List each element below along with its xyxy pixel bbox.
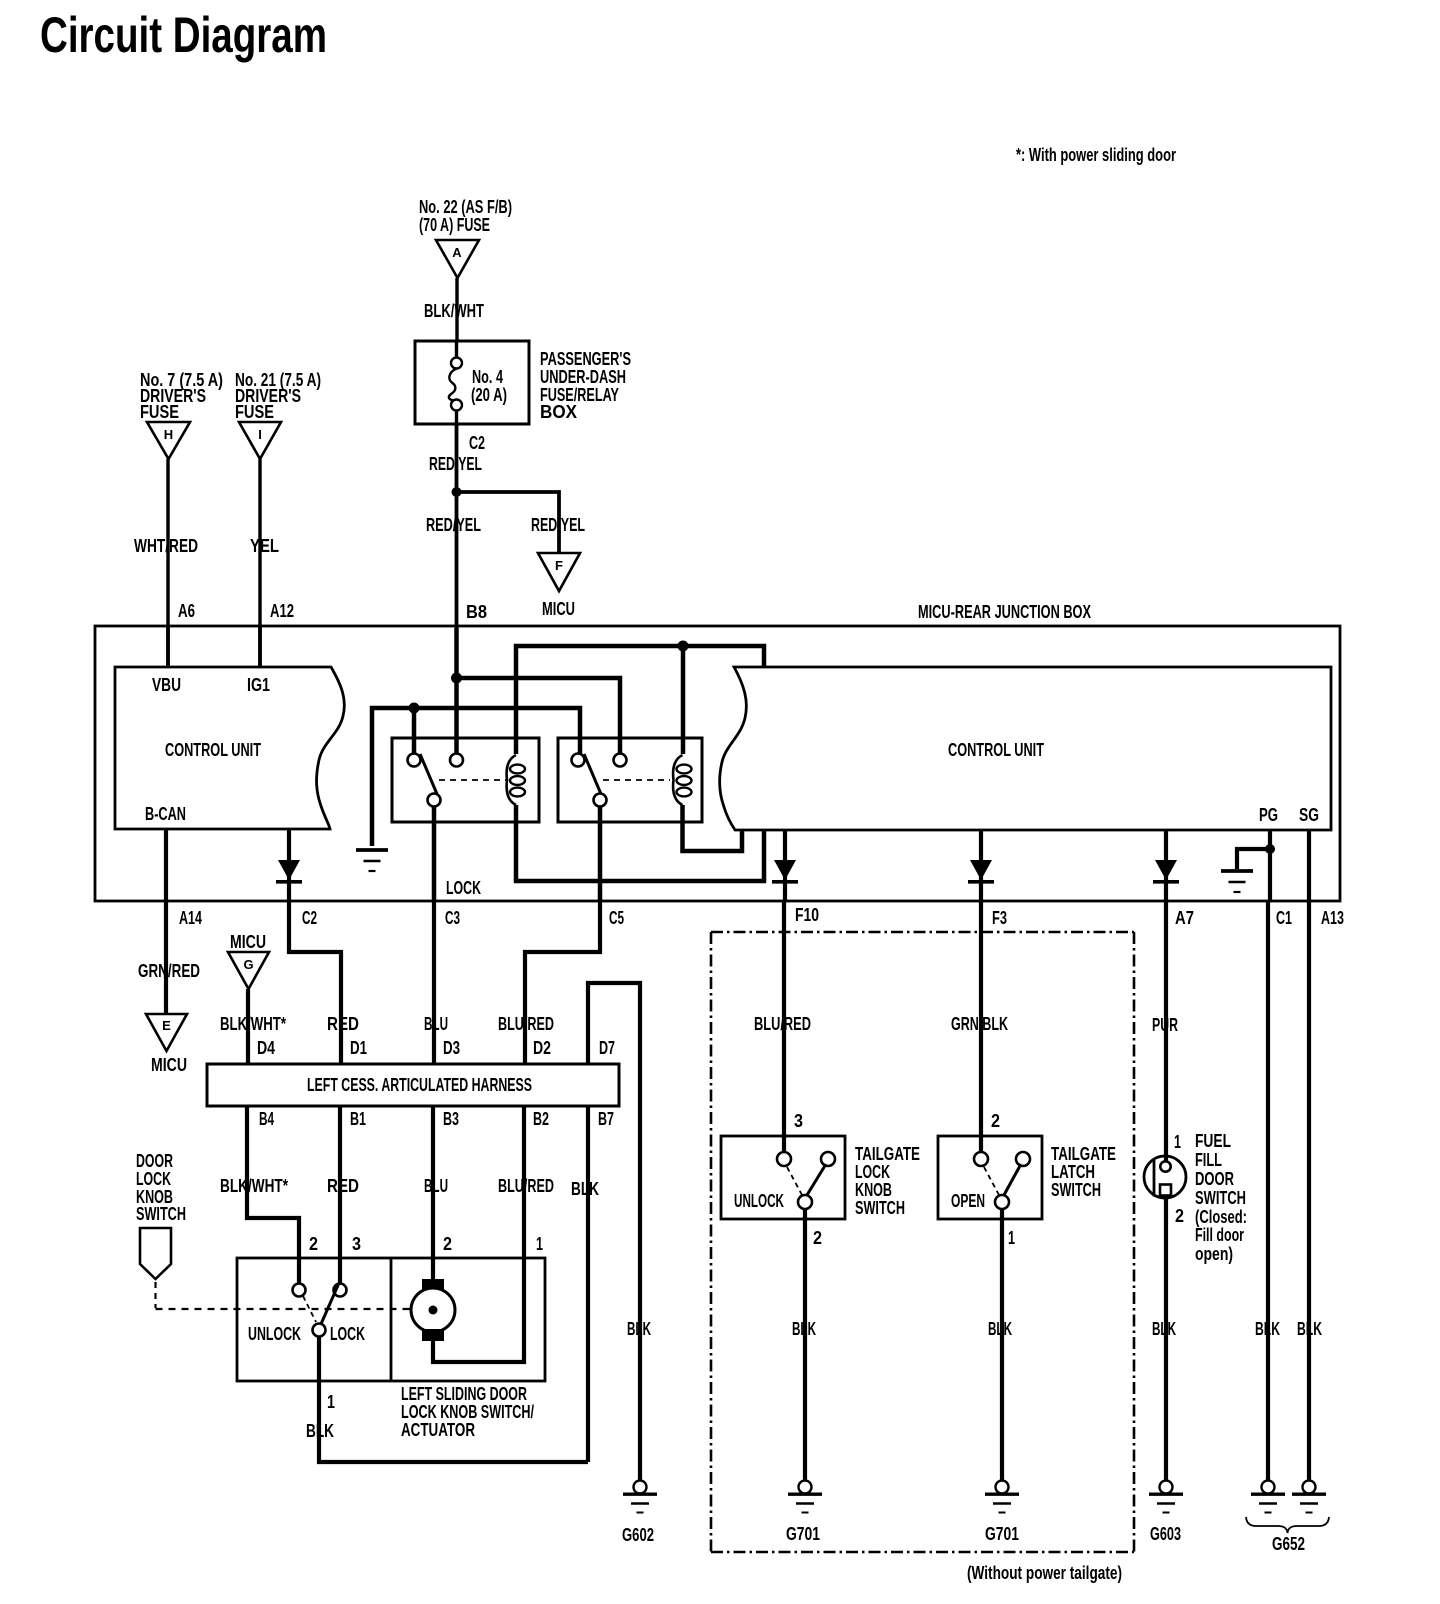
svg-text:RED: RED bbox=[327, 1176, 359, 1196]
svg-text:B2: B2 bbox=[533, 1109, 549, 1129]
svg-text:G: G bbox=[243, 957, 253, 972]
svg-text:D4: D4 bbox=[257, 1038, 275, 1058]
svg-text:MICU: MICU bbox=[151, 1055, 187, 1075]
svg-text:2: 2 bbox=[991, 1111, 1000, 1131]
power arrow A bbox=[436, 240, 479, 278]
wire relay2 output to C5 bbox=[598, 806, 603, 901]
svg-text:LOCK: LOCK bbox=[330, 1324, 365, 1344]
node coil feed bbox=[678, 641, 689, 652]
node PG ground tap bbox=[1265, 844, 1275, 854]
svg-text:TAILGATE: TAILGATE bbox=[1051, 1144, 1116, 1164]
svg-text:3: 3 bbox=[352, 1234, 361, 1254]
svg-text:1: 1 bbox=[536, 1234, 543, 1254]
wire B8 branch to relay 2 bbox=[457, 678, 621, 754]
wire A14 GRN/RED to E bbox=[164, 901, 168, 1014]
svg-text:ACTUATOR: ACTUATOR bbox=[401, 1420, 475, 1440]
wire RED/YEL fuse box down bbox=[455, 424, 459, 628]
wire C5 to D2 BLU/RED bbox=[525, 901, 600, 1064]
svg-text:BLK: BLK bbox=[1255, 1319, 1280, 1339]
junction node bbox=[452, 487, 462, 497]
wire YEL bbox=[258, 459, 261, 667]
wire relay1 output LOCK to C3 bbox=[432, 806, 437, 901]
tailgate latch switch box bbox=[938, 1136, 1042, 1219]
svg-text:MICU-REAR JUNCTION BOX: MICU-REAR JUNCTION BOX bbox=[918, 602, 1091, 622]
label TAILGATE LOCK KNOB SWITCH bbox=[855, 1144, 920, 1218]
svg-text:2: 2 bbox=[309, 1234, 318, 1254]
wire relay2 coil return to control unit bbox=[683, 805, 743, 851]
svg-text:D1: D1 bbox=[350, 1038, 367, 1058]
svg-text:SG: SG bbox=[1299, 805, 1319, 825]
svg-text:RED/YEL: RED/YEL bbox=[426, 515, 481, 535]
svg-text:PASSENGER'S: PASSENGER'S bbox=[540, 349, 631, 369]
wire WHT/RED bbox=[166, 459, 169, 667]
svg-text:GRN/BLK: GRN/BLK bbox=[951, 1014, 1008, 1034]
wire F3 GRN/BLK to tailgate latch switch bbox=[979, 901, 983, 1152]
svg-text:G603: G603 bbox=[1150, 1524, 1181, 1544]
relay 2 box bbox=[558, 738, 702, 822]
tailgate lock knob switch box bbox=[721, 1136, 845, 1219]
wire control unit to F3 bbox=[979, 830, 983, 901]
wire A13 BLK to G652 bbox=[1307, 901, 1311, 1481]
svg-text:*: With power sliding door: *: With power sliding door bbox=[1016, 145, 1176, 165]
svg-text:B7: B7 bbox=[598, 1109, 614, 1129]
wire switch pin1 BLK to B7 bbox=[319, 1337, 588, 1463]
power arrow H bbox=[147, 422, 190, 459]
svg-text:LATCH: LATCH bbox=[1051, 1162, 1095, 1182]
svg-text:G701: G701 bbox=[786, 1524, 820, 1544]
diode D3 (F3) bbox=[968, 860, 994, 882]
relay 2 coil bbox=[673, 755, 691, 805]
svg-text:No. 22 (AS F/B): No. 22 (AS F/B) bbox=[419, 197, 512, 217]
svg-text:RED/YEL: RED/YEL bbox=[531, 515, 585, 535]
door lock knob switch symbol bbox=[140, 1228, 171, 1279]
svg-text:D3: D3 bbox=[443, 1038, 460, 1058]
power arrow I bbox=[239, 422, 281, 459]
svg-text:LOCK KNOB SWITCH/: LOCK KNOB SWITCH/ bbox=[401, 1402, 534, 1422]
ground G652 (right) bbox=[1292, 1481, 1326, 1513]
svg-text:LOCK: LOCK bbox=[855, 1162, 890, 1182]
svg-text:C2: C2 bbox=[302, 908, 317, 928]
svg-text:WHT/RED: WHT/RED bbox=[134, 536, 198, 556]
svg-text:MICU: MICU bbox=[542, 599, 575, 619]
wire control unit to F10 bbox=[783, 830, 787, 901]
svg-text:SWITCH: SWITCH bbox=[855, 1198, 905, 1218]
wire C1 BLK to G652 bbox=[1266, 901, 1270, 1481]
wire A7 PUR to fuel fill door switch bbox=[1164, 901, 1168, 1157]
wire tailgate latch BLK to G701 bbox=[1000, 1209, 1004, 1481]
node B8 branch bbox=[451, 673, 462, 684]
svg-text:C5: C5 bbox=[609, 908, 624, 928]
relay 1 actuation dashed link bbox=[439, 779, 506, 781]
svg-text:BLK: BLK bbox=[1152, 1319, 1176, 1339]
diode D1 (C2) bbox=[276, 860, 302, 882]
fuse No.21 driver's label bbox=[235, 370, 321, 422]
svg-text:UNDER-DASH: UNDER-DASH bbox=[540, 367, 626, 387]
wire fuel fill switch BLK to G603 bbox=[1164, 1198, 1168, 1481]
svg-text:open): open) bbox=[1195, 1244, 1233, 1264]
svg-text:GRN/RED: GRN/RED bbox=[138, 961, 200, 981]
wire control unit to A7 bbox=[1164, 830, 1168, 901]
power arrow E bbox=[146, 1014, 187, 1051]
svg-text:G701: G701 bbox=[985, 1524, 1019, 1544]
svg-text:G652: G652 bbox=[1272, 1534, 1305, 1554]
svg-text:C2: C2 bbox=[469, 433, 485, 453]
svg-text:BLU: BLU bbox=[424, 1014, 448, 1034]
svg-text:UNLOCK: UNLOCK bbox=[734, 1191, 784, 1211]
tailgate lock knob switch blade bbox=[807, 1164, 826, 1195]
relay 1 armature blade bbox=[420, 754, 437, 794]
svg-text:A6: A6 bbox=[178, 601, 195, 621]
fuel fill door switch SW bbox=[1144, 1156, 1186, 1199]
svg-text:BLU/RED: BLU/RED bbox=[498, 1176, 554, 1196]
label No.4 (20A) bbox=[471, 367, 507, 405]
fuse No.4 symbol bbox=[449, 341, 462, 424]
knob switch contacts bbox=[293, 1284, 347, 1337]
left cess. articulated harness box bbox=[207, 1064, 619, 1106]
wire G to D4 BLK/WHT* bbox=[246, 989, 250, 1064]
relay 2 armature blade bbox=[584, 754, 601, 794]
svg-text:BLK/WHT*: BLK/WHT* bbox=[220, 1176, 288, 1196]
wire B1 RED to switch pin 3 bbox=[338, 1106, 342, 1284]
svg-text:2: 2 bbox=[443, 1234, 452, 1254]
svg-text:G602: G602 bbox=[622, 1525, 654, 1545]
relay 1 coil bbox=[507, 755, 525, 805]
svg-text:2: 2 bbox=[813, 1228, 822, 1248]
diode D4 (A7) bbox=[1153, 860, 1179, 882]
svg-text:3: 3 bbox=[794, 1111, 803, 1131]
svg-text:(Without power tailgate): (Without power tailgate) bbox=[967, 1563, 1122, 1583]
brace G652 bbox=[1246, 1517, 1329, 1533]
svg-text:BLK: BLK bbox=[571, 1179, 599, 1199]
svg-text:FUEL: FUEL bbox=[1195, 1131, 1231, 1151]
svg-text:H: H bbox=[164, 427, 173, 442]
svg-text:LEFT CESS. ARTICULATED HARNESS: LEFT CESS. ARTICULATED HARNESS bbox=[307, 1075, 532, 1095]
svg-text:1: 1 bbox=[1008, 1228, 1015, 1248]
svg-text:DOOR: DOOR bbox=[1195, 1169, 1234, 1189]
wire C2 to D1 RED bbox=[289, 901, 341, 1064]
wire SG to A13 bbox=[1307, 830, 1311, 901]
power arrow F bbox=[538, 553, 580, 591]
relay 1 contact pins bbox=[408, 754, 464, 807]
svg-text:D7: D7 bbox=[599, 1038, 615, 1058]
left sliding door lock knob switch/actuator box bbox=[237, 1258, 545, 1381]
svg-text:VBU: VBU bbox=[152, 675, 181, 695]
svg-text:LEFT SLIDING DOOR: LEFT SLIDING DOOR bbox=[401, 1384, 527, 1404]
label passenger's under-dash fuse/relay box bbox=[540, 349, 631, 422]
svg-text:B-CAN: B-CAN bbox=[145, 804, 186, 824]
motor M (actuator) bbox=[411, 1279, 455, 1341]
ground G701 (left) bbox=[788, 1481, 822, 1513]
svg-text:FUSE: FUSE bbox=[235, 402, 274, 422]
relay 1 box bbox=[392, 738, 539, 822]
control unit (right) U2 bbox=[720, 667, 1331, 830]
svg-text:LOCK: LOCK bbox=[136, 1169, 171, 1189]
svg-text:LOCK: LOCK bbox=[446, 878, 481, 898]
wire A12 to IG1 bbox=[258, 626, 262, 667]
label LEFT SLIDING DOOR LOCK KNOB SWITCH/ACTUATOR bbox=[401, 1384, 534, 1440]
svg-text:(20 A): (20 A) bbox=[471, 385, 507, 405]
svg-text:B8: B8 bbox=[466, 602, 487, 622]
tailgate lock knob switch dashed alternate bbox=[787, 1167, 802, 1195]
svg-text:F: F bbox=[555, 558, 563, 573]
svg-text:A13: A13 bbox=[1321, 908, 1344, 928]
svg-text:B4: B4 bbox=[259, 1109, 274, 1129]
ground (junction box left) bbox=[356, 850, 388, 871]
diode D2 (F10) bbox=[772, 860, 798, 882]
svg-text:BLK/WHT: BLK/WHT bbox=[424, 301, 484, 321]
ground G602 bbox=[623, 1481, 657, 1513]
svg-text:F3: F3 bbox=[992, 908, 1007, 928]
ground G652 (left) bbox=[1251, 1481, 1285, 1513]
svg-text:E: E bbox=[162, 1018, 171, 1033]
wire B8 vertical into relay 1 bbox=[454, 628, 459, 754]
svg-text:1: 1 bbox=[1174, 1132, 1181, 1152]
svg-text:D2: D2 bbox=[533, 1038, 551, 1058]
svg-text:I: I bbox=[258, 427, 262, 442]
wire coil feed bbox=[516, 646, 764, 754]
wire tailgate lock switch BLK to G701 bbox=[803, 1209, 807, 1481]
control unit (left) U1 bbox=[115, 667, 344, 829]
node relay1 common bbox=[409, 703, 420, 714]
wire F10 BLU/RED to tailgate lock knob switch bbox=[782, 901, 786, 1152]
wire B2 BLU/RED to actuator pin 1 bbox=[433, 1106, 524, 1362]
svg-text:BLK: BLK bbox=[1297, 1319, 1322, 1339]
wire B3 BLU to actuator pin 2 bbox=[431, 1106, 435, 1280]
svg-text:Circuit Diagram: Circuit Diagram bbox=[40, 7, 327, 63]
wire A6 to VBU bbox=[166, 626, 170, 667]
dashed box (without power tailgate) bbox=[711, 932, 1134, 1552]
relay 2 actuation dashed link bbox=[603, 779, 670, 781]
knob switch dashed alternate bbox=[303, 1296, 316, 1322]
wire node to relay1 common bbox=[412, 708, 417, 754]
ground G701 (right) bbox=[985, 1481, 1019, 1513]
fuse No.7 driver's label bbox=[140, 370, 223, 422]
wire relay1 coil return to control unit bbox=[516, 805, 764, 881]
svg-text:No. 4: No. 4 bbox=[472, 367, 503, 387]
svg-text:1: 1 bbox=[327, 1392, 335, 1412]
mechanical dashed link knob to switch bbox=[156, 1282, 412, 1309]
svg-text:BLK: BLK bbox=[792, 1319, 816, 1339]
wire control unit to C2 bbox=[287, 829, 291, 901]
wire node to coil 2 bbox=[681, 646, 686, 754]
svg-text:SWITCH: SWITCH bbox=[1051, 1180, 1101, 1200]
svg-text:BLU/RED: BLU/RED bbox=[754, 1014, 811, 1034]
svg-text:BLK: BLK bbox=[627, 1319, 651, 1339]
wire B7 BLK down bbox=[586, 1106, 590, 1462]
svg-text:CONTROL UNIT: CONTROL UNIT bbox=[948, 740, 1044, 760]
svg-text:FUSE: FUSE bbox=[140, 402, 179, 422]
svg-text:BLK: BLK bbox=[988, 1319, 1012, 1339]
label TAILGATE LATCH SWITCH bbox=[1051, 1144, 1116, 1200]
svg-text:C1: C1 bbox=[1276, 908, 1292, 928]
svg-text:C3: C3 bbox=[445, 908, 460, 928]
svg-text:KNOB: KNOB bbox=[855, 1180, 892, 1200]
MICU-rear junction box bbox=[95, 626, 1340, 901]
svg-text:RED/YEL: RED/YEL bbox=[429, 454, 482, 474]
svg-text:A14: A14 bbox=[179, 908, 202, 928]
wire B4 BLK/WHT* to switch pin 2 bbox=[247, 1106, 299, 1284]
svg-text:FILL: FILL bbox=[1195, 1150, 1222, 1170]
label DOOR LOCK KNOB SWITCH bbox=[136, 1151, 186, 1224]
svg-text:BLK/WHT*: BLK/WHT* bbox=[220, 1014, 286, 1034]
svg-text:Fill door: Fill door bbox=[1195, 1225, 1244, 1245]
wire BLK/WHT from A to fuse box bbox=[455, 278, 458, 342]
svg-text:B3: B3 bbox=[443, 1109, 459, 1129]
svg-text:DOOR: DOOR bbox=[136, 1151, 173, 1171]
wire B-CAN to A14 bbox=[164, 829, 168, 901]
wire PG ground hook bbox=[1237, 849, 1270, 869]
tailgate latch switch blade bbox=[1004, 1164, 1021, 1195]
svg-text:(70 A) FUSE: (70 A) FUSE bbox=[419, 215, 490, 235]
svg-text:B1: B1 bbox=[350, 1109, 366, 1129]
svg-text:BLU: BLU bbox=[424, 1176, 448, 1196]
svg-text:PG: PG bbox=[1259, 805, 1278, 825]
svg-text:(Closed:: (Closed: bbox=[1195, 1207, 1247, 1227]
passenger's under-dash fuse/relay box bbox=[415, 341, 529, 424]
ground G603 bbox=[1149, 1481, 1183, 1513]
svg-text:IG1: IG1 bbox=[247, 675, 270, 695]
svg-text:CONTROL UNIT: CONTROL UNIT bbox=[165, 740, 261, 760]
svg-text:SWITCH: SWITCH bbox=[136, 1204, 186, 1224]
svg-text:BLK: BLK bbox=[306, 1421, 334, 1441]
svg-text:A7: A7 bbox=[1175, 908, 1194, 928]
svg-text:BLU/RED: BLU/RED bbox=[498, 1014, 554, 1034]
power arrow G bbox=[228, 952, 269, 989]
svg-text:A: A bbox=[452, 245, 462, 260]
svg-text:OPEN: OPEN bbox=[951, 1191, 985, 1211]
knob switch blade bbox=[321, 1283, 339, 1324]
fuse No.22 label bbox=[419, 197, 512, 235]
label FUEL FILL DOOR SWITCH bbox=[1195, 1131, 1247, 1264]
svg-text:F10: F10 bbox=[795, 905, 819, 925]
svg-text:MICU: MICU bbox=[230, 932, 266, 952]
svg-text:SWITCH: SWITCH bbox=[1195, 1188, 1246, 1208]
wire PG to C1 bbox=[1268, 830, 1272, 901]
tailgate latch switch contacts bbox=[974, 1152, 1030, 1209]
wire C3 to D3 BLU bbox=[432, 901, 436, 1064]
svg-text:UNLOCK: UNLOCK bbox=[248, 1324, 301, 1344]
relay 2 contact pins bbox=[572, 754, 627, 807]
wire branch to F bbox=[457, 492, 560, 553]
tailgate lock knob switch contacts bbox=[777, 1152, 835, 1209]
svg-text:TAILGATE: TAILGATE bbox=[855, 1144, 920, 1164]
svg-text:YEL: YEL bbox=[250, 536, 279, 556]
tailgate latch switch dashed alternate bbox=[984, 1167, 999, 1195]
svg-text:PUR: PUR bbox=[1152, 1015, 1178, 1035]
svg-text:BOX: BOX bbox=[540, 402, 577, 422]
svg-text:2: 2 bbox=[1175, 1206, 1184, 1226]
svg-text:A12: A12 bbox=[270, 601, 294, 621]
wire D7 up and over to G602 bbox=[588, 983, 640, 1481]
wire relay commons to ground bbox=[372, 708, 580, 846]
svg-text:RED: RED bbox=[327, 1014, 359, 1034]
ground (PG) bbox=[1221, 871, 1253, 892]
